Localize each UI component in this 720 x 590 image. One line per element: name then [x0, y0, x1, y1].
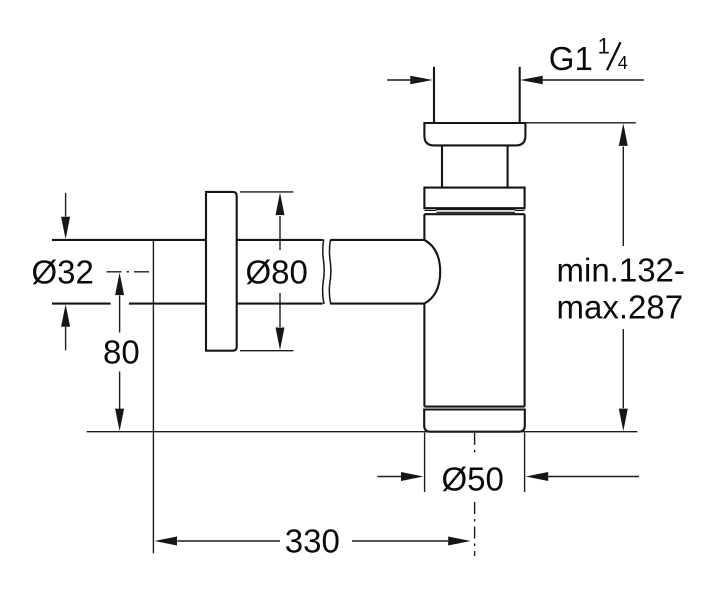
dim 80 vertical line	[119, 296, 121, 410]
arrowhead diam32 bottom	[61, 304, 70, 327]
svg-text:G1: G1	[549, 40, 593, 77]
arrowhead 80 top	[115, 273, 124, 296]
gasket ring line 2	[437, 211, 516, 213]
dim G1 1/4 left leader	[387, 79, 411, 81]
inlet tailpipe right wall	[519, 67, 521, 123]
svg-text:330: 330	[285, 523, 340, 560]
svg-text:min.132-: min.132-	[557, 251, 685, 288]
svg-text:Ø32: Ø32	[32, 254, 94, 291]
inlet tailpipe left wall	[433, 67, 435, 123]
pipe break squiggle left	[323, 239, 325, 304]
pipe centerline dash-dot	[107, 271, 154, 273]
arrowhead 330 left	[155, 537, 178, 546]
upper body flange	[424, 188, 524, 209]
arrowhead diam50 right	[526, 472, 549, 481]
dim diam32 top leader	[65, 193, 67, 217]
dim diam50 left leader	[378, 476, 402, 478]
bottom cap	[424, 410, 525, 432]
svg-text:4: 4	[618, 53, 628, 73]
arrowhead diam80 bottom	[276, 328, 285, 351]
diam80 extension line bottom	[240, 350, 293, 352]
dim diam32 bottom leader	[65, 327, 67, 350]
dim diam50 right leader	[548, 476, 639, 478]
dim 330 line	[177, 540, 448, 542]
diam50 extension line left	[424, 433, 426, 492]
arrowhead G1 left	[410, 76, 433, 85]
lower centerline dash-dot	[474, 433, 476, 556]
arrowhead G1 right	[520, 76, 543, 85]
pipe break squiggle right	[329, 240, 331, 304]
neck left wall	[441, 145, 443, 187]
body top edge	[424, 213, 524, 215]
dim min-max vertical line	[622, 147, 624, 409]
wall flange disc	[206, 192, 237, 351]
svg-text:Ø50: Ø50	[442, 460, 504, 497]
arrowhead diam50 left	[401, 472, 424, 481]
top cap flange	[424, 123, 525, 145]
gasket ring line 1	[424, 209, 524, 212]
inlet bulge arc	[424, 240, 440, 304]
body right wall	[524, 214, 526, 406]
svg-text:1: 1	[598, 34, 610, 59]
wall extension line	[152, 240, 154, 553]
diam80 extension line top	[240, 191, 293, 193]
diam50 extension line right	[524, 433, 526, 492]
horizontal pipe bottom wall	[52, 303, 424, 305]
svg-text:80: 80	[103, 334, 140, 371]
bottom reference line	[87, 431, 638, 433]
body left wall lower	[423, 304, 425, 407]
arrowhead diam80 top	[276, 193, 285, 216]
neck right wall	[507, 145, 509, 187]
svg-text:max.287: max.287	[557, 289, 684, 326]
arrowhead min-max bottom	[619, 409, 628, 432]
top reference line	[525, 122, 635, 124]
body left wall upper	[423, 214, 425, 240]
arrowhead 80 bottom	[115, 409, 124, 432]
svg-text:Ø80: Ø80	[246, 254, 308, 291]
dim diam80 vertical line	[279, 216, 281, 327]
arrowhead min-max top	[619, 123, 628, 145]
horizontal pipe top wall	[52, 239, 424, 241]
arrowhead diam32 top	[61, 217, 70, 240]
arrowhead 330 right	[448, 537, 471, 546]
dim G1 1/4 right leader	[543, 79, 645, 81]
label fraction slash	[607, 42, 621, 70]
body bottom edge	[424, 406, 524, 408]
